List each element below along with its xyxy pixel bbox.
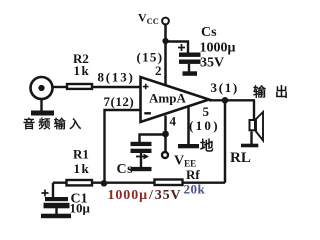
svg-text:输出: 输出 — [253, 85, 291, 100]
svg-text:8(13): 8(13) — [98, 70, 135, 85]
svg-text:2: 2 — [155, 63, 162, 78]
input jack J — [31, 77, 53, 99]
junction (output) — [222, 97, 229, 104]
wire branch to Cs top — [166, 42, 189, 54]
svg-text:10μ: 10μ — [70, 201, 91, 216]
junction (Vcc branch) — [162, 38, 168, 44]
svg-text:5: 5 — [203, 104, 210, 119]
svg-text:1000μ: 1000μ — [200, 41, 236, 56]
ground (speaker) — [241, 144, 258, 148]
wire pin 4 to VEE — [164, 116, 167, 153]
svg-text:Cs: Cs — [117, 162, 134, 177]
wire inverting input — [105, 110, 142, 183]
svg-text:1000μ/35V: 1000μ/35V — [108, 188, 182, 203]
capacitor Cs (bottom) — [131, 142, 152, 167]
wire jack to R2 — [53, 86, 67, 88]
ground (C1) — [41, 214, 71, 219]
svg-text:地: 地 — [200, 138, 214, 154]
junction (pin 4 branch) — [162, 131, 169, 138]
wire jack to ground — [40, 99, 42, 112]
Vcc terminal — [162, 18, 169, 25]
ground (pin 5) — [178, 144, 199, 148]
wire bottom rail — [53, 181, 225, 183]
resistor Rf — [155, 180, 183, 186]
svg-text:RL: RL — [230, 150, 251, 166]
op-amp AmpA — [141, 77, 210, 122]
svg-text:1k: 1k — [74, 63, 91, 78]
ground (Cs bottom) — [131, 167, 152, 171]
capacitor C1 — [42, 183, 70, 214]
speaker RL — [250, 112, 264, 145]
capacitor Cs (top) — [178, 44, 201, 72]
resistor R2 — [67, 84, 92, 89]
ground (Cs top) — [183, 71, 198, 76]
VEE terminal — [162, 152, 168, 158]
svg-text:AmpA: AmpA — [149, 91, 186, 106]
svg-text:Rf: Rf — [186, 167, 200, 182]
svg-text:R1: R1 — [73, 147, 89, 162]
svg-text:35V: 35V — [200, 56, 224, 71]
junction (feedback node) — [101, 180, 108, 187]
wire pin 5 to ground — [187, 106, 190, 145]
svg-text:Cs: Cs — [201, 25, 217, 40]
svg-text:3(1): 3(1) — [211, 80, 239, 95]
resistor R1 — [67, 180, 93, 185]
wire Vcc to pin 2 — [164, 25, 167, 86]
wire output — [209, 99, 255, 101]
wire branch to Cs bottom — [140, 135, 166, 143]
wire output to bottom rail — [224, 100, 227, 182]
wire output to speaker — [253, 100, 255, 119]
svg-text:7(12): 7(12) — [104, 94, 135, 109]
ground (input jack) — [31, 111, 54, 116]
svg-text:音频输入: 音频输入 — [23, 116, 85, 131]
wire R2 to noninverting input — [93, 86, 141, 88]
svg-text:(10): (10) — [189, 118, 220, 133]
svg-text:1k: 1k — [74, 161, 91, 176]
svg-text:4: 4 — [170, 114, 177, 129]
svg-text:20k: 20k — [184, 182, 206, 197]
